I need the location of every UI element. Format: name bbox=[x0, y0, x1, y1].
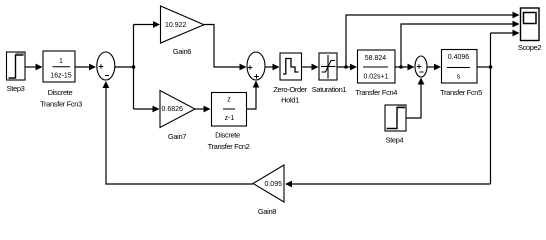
svg-text:0.095: 0.095 bbox=[264, 181, 282, 188]
svg-text:z: z bbox=[227, 97, 231, 104]
svg-text:58.824: 58.824 bbox=[365, 55, 387, 62]
svg-text:Discrete: Discrete bbox=[48, 88, 73, 97]
svg-text:Gain6: Gain6 bbox=[173, 47, 191, 56]
svg-text:Hold1: Hold1 bbox=[281, 96, 299, 105]
svg-text:0.02s+1: 0.02s+1 bbox=[363, 74, 388, 81]
svg-text:Gain8: Gain8 bbox=[258, 207, 276, 216]
svg-text:Discrete: Discrete bbox=[215, 131, 240, 140]
svg-text:Transfer Fcn2: Transfer Fcn2 bbox=[208, 142, 250, 151]
svg-text:0.4096: 0.4096 bbox=[448, 54, 470, 61]
svg-text:1: 1 bbox=[59, 58, 63, 65]
svg-text:Step4: Step4 bbox=[385, 136, 403, 145]
svg-text:10.922: 10.922 bbox=[165, 22, 187, 29]
svg-text:s: s bbox=[457, 74, 461, 81]
svg-text:Zero-Order: Zero-Order bbox=[273, 85, 307, 94]
svg-text:z-1: z-1 bbox=[225, 115, 235, 122]
svg-text:0.6826: 0.6826 bbox=[162, 106, 184, 113]
svg-text:Gain7: Gain7 bbox=[168, 132, 186, 141]
svg-text:Saturation1: Saturation1 bbox=[312, 85, 347, 94]
svg-text:Step3: Step3 bbox=[7, 84, 25, 93]
svg-text:Transfer Fcn3: Transfer Fcn3 bbox=[40, 100, 82, 109]
svg-text:Transfer Fcn5: Transfer Fcn5 bbox=[440, 88, 482, 97]
svg-text:Scope2: Scope2 bbox=[518, 43, 542, 52]
svg-text:Transfer Fcn4: Transfer Fcn4 bbox=[355, 88, 397, 97]
svg-text:16z-15: 16z-15 bbox=[50, 73, 72, 80]
